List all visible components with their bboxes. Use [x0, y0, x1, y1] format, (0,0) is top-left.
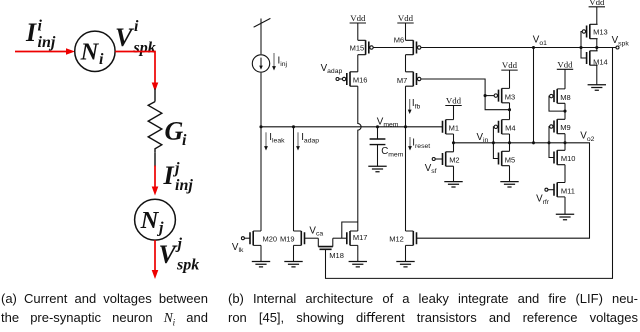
wire V_in to V_o2 to M12 gate: [417, 143, 590, 238]
wire Vdd to M6 drain: [405, 23, 407, 40]
current arrow I_inj^j into neuron N_j: [152, 166, 159, 196]
junction M8 loop / column: [563, 110, 566, 113]
ground under M11: [556, 214, 574, 219]
junction V_mem / C_mem: [376, 125, 379, 128]
wire M19 gate to V_ca node: [305, 237, 319, 239]
svg-text:M3: M3: [505, 92, 515, 101]
svg-text:M13: M13: [593, 28, 608, 37]
wire resistor to I_inj^j: [154, 153, 156, 167]
junction V_in / M1-M2: [452, 141, 455, 144]
ground under M2: [444, 182, 462, 187]
transistor M17: [347, 231, 368, 245]
terminal V_sf: [432, 158, 435, 161]
terminal V_adap: [336, 78, 339, 81]
wire M8 source to M9 drain: [564, 103, 566, 119]
junction V_o1 bottom: [532, 141, 535, 144]
ground under M20: [252, 262, 270, 267]
wire M3 source to M4 drain: [509, 103, 511, 120]
wire M17 source to ground: [357, 245, 359, 261]
wire V_lk terminal to M20 gate: [244, 237, 250, 239]
wire V_mem rail: [261, 126, 443, 128]
svg-text:Vmem: Vmem: [377, 116, 399, 128]
wire M14 source to ground: [596, 65, 598, 85]
ground under C_mem: [368, 166, 386, 171]
junction V_o2 rail / M9-M10 column: [563, 141, 566, 144]
power Vdd above M15: [350, 13, 366, 23]
svg-text:Vdd: Vdd: [502, 60, 518, 70]
junction spike rail / M13-M14: [595, 46, 598, 49]
svg-text:M11: M11: [561, 186, 575, 195]
svg-text:M19: M19: [280, 235, 295, 244]
wire neuron N_i output: [115, 52, 158, 92]
svg-text:M7: M7: [397, 76, 407, 85]
wire M6 source to M7 drain: [405, 55, 407, 72]
svg-text:M20: M20: [263, 235, 278, 244]
power Vdd above M6: [397, 13, 413, 23]
caption panel (a): [1, 289, 208, 332]
transistor M15: [350, 40, 374, 54]
svg-text:M4: M4: [505, 123, 515, 132]
wire spike feedback to M18 gate: [326, 48, 613, 279]
wire M1 source to M2 drain: [453, 134, 455, 152]
wire M10 source to M11 drain: [564, 165, 566, 183]
ground under M12: [396, 262, 414, 267]
transistor M6: [394, 36, 421, 55]
wire Vdd to M8 drain: [564, 69, 566, 89]
svg-text:Vsf: Vsf: [425, 163, 437, 175]
svg-text:M1: M1: [449, 123, 459, 132]
transistor M19: [280, 231, 304, 245]
wire M13 source to spike rail: [596, 39, 598, 51]
transistor M13: [582, 24, 607, 38]
wire M5 source to ground: [509, 166, 511, 182]
transistor M16: [342, 72, 367, 86]
svg-text:M14: M14: [593, 58, 608, 67]
current arrow I_reset: [408, 137, 412, 151]
ground under M17: [349, 262, 367, 267]
transistor M5: [499, 151, 516, 165]
resistor G_i: [148, 102, 162, 153]
current arrow I_inj: [272, 53, 276, 71]
wire V_rfr terminal to M11 gate: [548, 189, 554, 191]
transistor M1: [443, 120, 460, 134]
wire Vdd to M15 drain: [357, 23, 359, 40]
junction V_in / M4-M5 column: [508, 141, 511, 144]
output arrow V_spk^j: [152, 240, 159, 279]
wire leak branch down to M20: [260, 127, 262, 231]
svg-text:Vadap: Vadap: [321, 63, 343, 75]
wire M7 source to V_mem: [405, 86, 407, 127]
wire V_adap terminal to M16 gate bubble: [339, 78, 342, 80]
terminal V_spk: [616, 46, 619, 49]
svg-text:Vdd: Vdd: [398, 13, 414, 23]
transistor M12: [389, 231, 416, 245]
junction V_in / M4-M5 gates: [492, 141, 495, 144]
wire M15 gate line to M6: [373, 47, 413, 49]
current arrow I_fb: [408, 99, 412, 114]
current arrow I_inj^i into neuron N_i: [15, 48, 75, 55]
wire V_sf terminal to M2 gate: [435, 158, 442, 160]
transistor M11: [554, 183, 575, 197]
svg-text:M16: M16: [353, 75, 368, 84]
wire M2 source to ground: [453, 166, 455, 181]
transistor M3: [494, 88, 515, 102]
wire M15 source to M16 drain: [357, 55, 359, 72]
junction V_mem / I_adap branch: [292, 125, 295, 128]
wire M11 source to ground: [564, 197, 566, 214]
wire M3 gate bubble stub: [485, 95, 494, 97]
svg-text:Ileak: Ileak: [269, 132, 285, 144]
transistor M8: [550, 89, 571, 103]
terminal V_rfr: [545, 188, 548, 191]
junction V_o1 top: [532, 46, 535, 49]
transistor M7: [397, 72, 421, 86]
wire V_o1 vertical: [533, 48, 535, 143]
svg-text:M6: M6: [394, 36, 404, 45]
svg-text:Vdd: Vdd: [350, 13, 366, 23]
junction V_mem / M7-M12 column: [404, 125, 407, 128]
svg-text:Ireset: Ireset: [412, 138, 430, 150]
transistor M4: [494, 120, 515, 134]
neuron N_j: [135, 199, 176, 240]
neuron N_i: [75, 31, 115, 71]
svg-text:Vca: Vca: [309, 225, 323, 237]
svg-text:M5: M5: [505, 155, 515, 164]
junction V_mem / I_leak branch: [259, 125, 262, 128]
svg-text:Iadap: Iadap: [301, 132, 319, 144]
power Vdd above M1: [445, 96, 461, 106]
wire M9 gate / M10 gate vertical: [549, 127, 554, 158]
svg-text:Vo1: Vo1: [533, 35, 547, 47]
wire Vdd to M1 drain: [453, 106, 455, 120]
svg-text:Vrfr: Vrfr: [536, 194, 550, 206]
circuit panel (a): synapse between neurons: [0, 0, 230, 290]
terminal V_lk: [241, 237, 244, 240]
wire M6 gate line to V_spk: [421, 47, 616, 49]
svg-text:Iinj: Iinj: [278, 56, 288, 68]
svg-text:M8: M8: [560, 93, 570, 102]
svg-text:Vspk: Vspk: [612, 35, 630, 47]
power Vdd above M13: [589, 0, 605, 7]
wire Vdd to M3 drain: [509, 70, 511, 88]
current source I_inj: [252, 55, 269, 72]
svg-text:Vdd: Vdd: [589, 0, 605, 7]
svg-text:M2: M2: [449, 156, 459, 165]
transistor M10: [554, 150, 575, 164]
wire M17 diode jog: [342, 222, 358, 238]
ground under M14: [588, 85, 606, 90]
transistor M2: [443, 152, 460, 166]
svg-text:Vdd: Vdd: [557, 59, 573, 69]
svg-text:M15: M15: [350, 43, 365, 52]
junction V_o2 rail / M9-M10 gates: [547, 141, 550, 144]
capacitor C_mem: [370, 127, 386, 167]
svg-text:Vlk: Vlk: [232, 242, 244, 254]
wire to resistor: [154, 89, 156, 102]
junction M3 gate tap: [484, 94, 487, 97]
transistor M20: [250, 231, 277, 245]
ground under M5: [500, 182, 518, 187]
wire M12 source to ground: [405, 245, 407, 261]
wire M16 source down to M17 drain with hop: [358, 86, 361, 231]
transistor M14: [587, 51, 608, 67]
svg-text:M17: M17: [353, 233, 368, 242]
svg-text:M18: M18: [329, 251, 344, 260]
wire M7 gate to M3 gate: [421, 79, 485, 96]
svg-text:Vin: Vin: [477, 132, 489, 144]
svg-text:Cmem: Cmem: [381, 146, 404, 158]
power Vdd above M3: [501, 60, 517, 70]
wire M19 source to ground: [293, 245, 295, 261]
wire M13/M14 gates vertical: [581, 32, 587, 59]
transistor M18: [318, 238, 344, 260]
svg-text:M10: M10: [561, 154, 576, 163]
svg-text:M12: M12: [389, 235, 404, 244]
svg-text:Vdd: Vdd: [446, 96, 462, 106]
caption panel (b): [228, 289, 638, 327]
wire M8 diode loop: [549, 96, 565, 111]
current arrow I_leak: [264, 132, 268, 150]
power Vdd above M8: [557, 59, 573, 69]
svg-text:M9: M9: [560, 123, 570, 132]
wire Vdd to M13 drain: [596, 7, 598, 25]
wire M3 diode loop: [485, 96, 509, 110]
wire M4 gate / M5 gate vertical: [493, 127, 498, 159]
svg-text:Vo2: Vo2: [580, 131, 594, 143]
junction M3 loop / column: [508, 108, 511, 111]
ground under M19: [284, 262, 302, 267]
wire adap branch down to M19: [293, 127, 295, 231]
wire M18 to M17 gate: [333, 237, 347, 239]
current arrow I_adap: [296, 132, 300, 150]
wire M20 source to ground: [260, 245, 262, 261]
wire reset branch down to M12: [405, 127, 407, 231]
junction spike rail / gates: [579, 46, 582, 49]
svg-text:Ifb: Ifb: [412, 98, 421, 110]
transistor M9: [550, 119, 571, 133]
wire input stub with off-chip slash: [254, 18, 271, 54]
wire M4 source to V_in rail: [509, 134, 511, 151]
wire current source to V_mem node: [260, 73, 262, 127]
wire M9 source to rail: [564, 134, 566, 151]
